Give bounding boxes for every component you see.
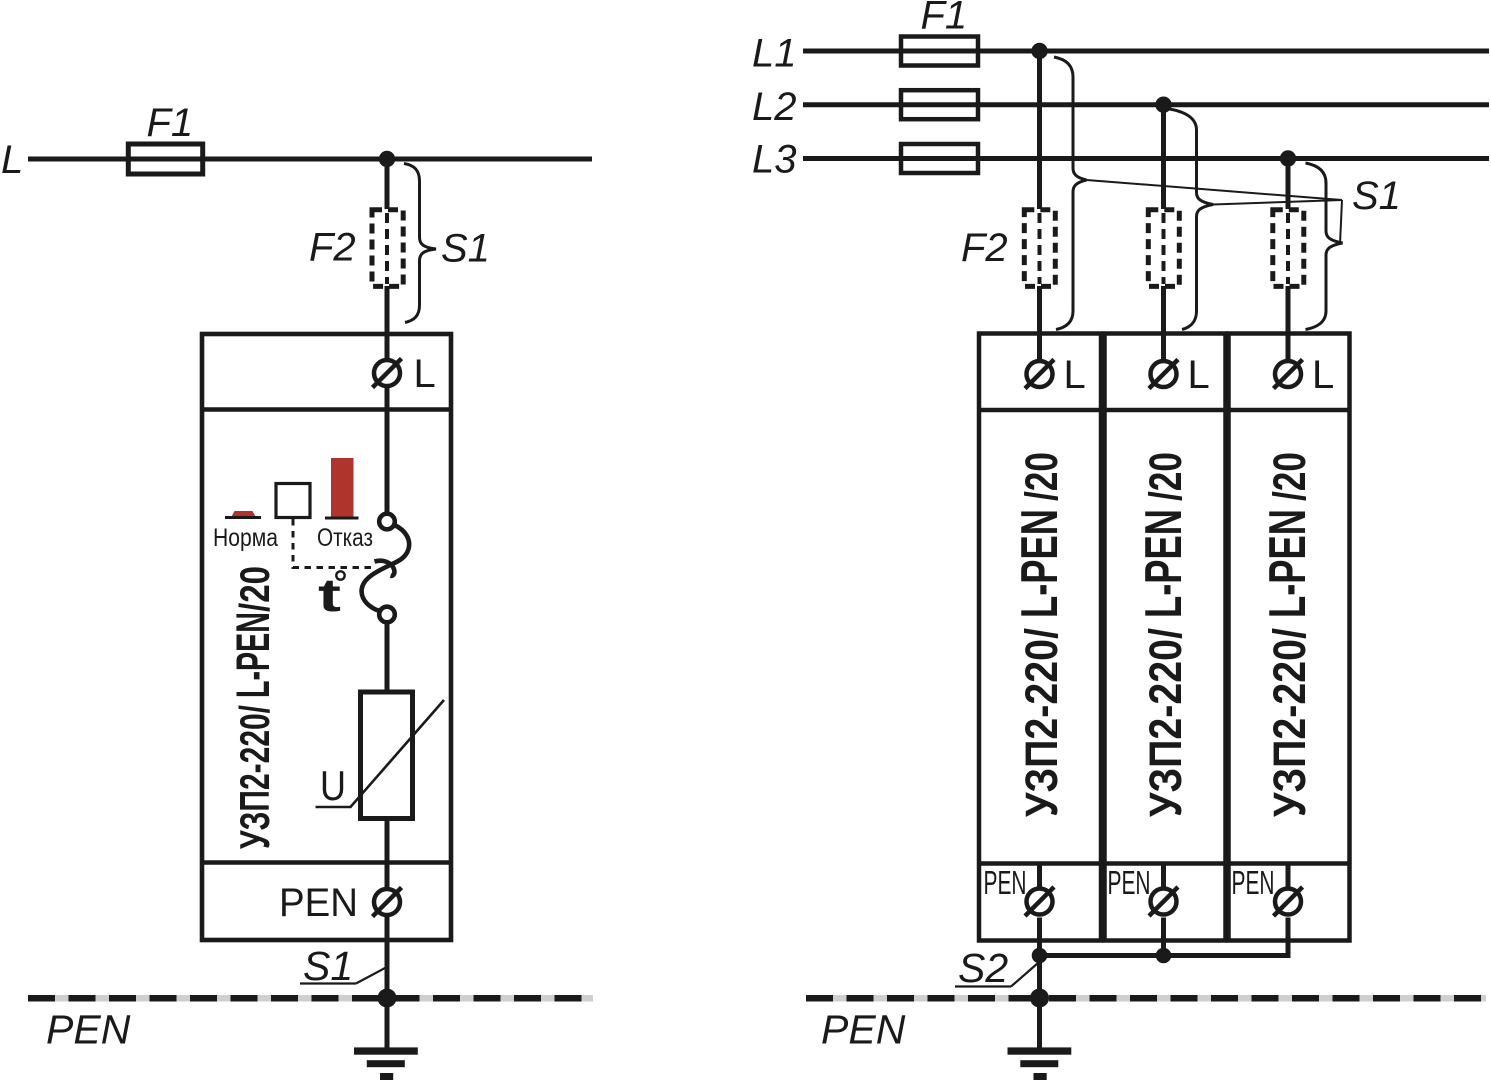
- PEN bus (left) gray underlay: [28, 995, 593, 1002]
- device model text (vertical): [226, 566, 279, 849]
- svg-text:УЗП2-220/: УЗП2-220/: [1264, 628, 1315, 817]
- svg-text:L-PEN: L-PEN: [1011, 509, 1069, 618]
- junction dot on L: [379, 151, 395, 167]
- svg-text:F2: F2: [961, 226, 1008, 270]
- model text box1 (vertical): [1011, 452, 1069, 817]
- svg-text:/20: /20: [1264, 452, 1315, 501]
- fuse F2c (dashed): [1273, 210, 1304, 287]
- svg-text:PEN: PEN: [279, 881, 358, 925]
- wire varistor to PEN terminal: [385, 819, 390, 903]
- fuse F2 (dashed): [372, 210, 403, 287]
- leader from brace2 to S1: [1213, 200, 1342, 205]
- svg-text:U: U: [320, 762, 346, 809]
- wire terminal to bus (box3): [1286, 864, 1291, 889]
- fuse F2b (dashed): [1148, 210, 1179, 287]
- svg-text:УЗП2-220/: УЗП2-220/: [1140, 628, 1191, 817]
- terminal L circle box3: [1275, 361, 1301, 387]
- terminal L circle: [374, 360, 400, 386]
- brace S1: [404, 164, 436, 323]
- wire terminal to PEN bus (box1): [1037, 864, 1042, 889]
- fuse on L2: [901, 90, 978, 119]
- indicator white square: [276, 484, 310, 518]
- svg-text:L: L: [1064, 353, 1086, 397]
- svg-text:Отказ: Отказ: [317, 524, 373, 552]
- brace 1: [1054, 57, 1087, 330]
- junction dot PEN bus: [378, 989, 397, 1008]
- svg-text:УЗП2-220/: УЗП2-220/: [231, 705, 278, 849]
- wire L3 drop: [1286, 159, 1291, 210]
- fuse F1: [128, 144, 202, 174]
- ground symbol right: [1008, 1047, 1072, 1054]
- svg-text:L-PEN: L-PEN: [226, 612, 279, 698]
- varistor diagonal: [316, 700, 445, 807]
- thermal switch bottom contact: [379, 607, 395, 623]
- PEN bus (right) dashes: [806, 995, 1486, 1002]
- terminal PEN circle box3: [1275, 889, 1301, 915]
- wire F2a to box: [1037, 286, 1042, 374]
- leader from brace1 to S1: [1087, 180, 1343, 200]
- svg-text:L3: L3: [752, 138, 797, 182]
- ground wire right: [1037, 998, 1042, 1048]
- svg-text:L-PEN: L-PEN: [1259, 509, 1317, 618]
- thermal switch curve: [362, 525, 410, 611]
- junction dot L1: [1031, 43, 1047, 59]
- box divider top: [202, 407, 451, 412]
- brace 3: [1306, 163, 1343, 330]
- svg-text:PEN: PEN: [46, 1007, 131, 1053]
- svg-text:L: L: [1188, 353, 1210, 397]
- junction dot PEN bus right: [1030, 989, 1049, 1008]
- device box 3: [1229, 334, 1350, 941]
- leader to brace3: [1340, 200, 1342, 244]
- wire L2 line: [803, 102, 1489, 107]
- wire junction to F2: [385, 159, 390, 209]
- svg-text:/20: /20: [1140, 452, 1191, 501]
- junction dot bus 2: [1156, 948, 1172, 964]
- fuse F1 on L1: [901, 37, 978, 66]
- device box U1: [202, 334, 451, 940]
- device box 2: [1105, 334, 1226, 941]
- thermal switch hook: [375, 561, 395, 576]
- svg-text:L: L: [414, 352, 436, 396]
- fuse F2a (dashed): [1024, 210, 1055, 287]
- svg-text:L2: L2: [752, 85, 797, 129]
- svg-text:S1: S1: [441, 227, 490, 271]
- wire terminal to switch: [385, 388, 390, 514]
- device box 1: [979, 334, 1101, 941]
- fuse on L3: [901, 144, 978, 173]
- svg-text:S2: S2: [958, 945, 1008, 991]
- svg-text:F1: F1: [921, 0, 968, 38]
- svg-text:L: L: [1312, 353, 1334, 397]
- svg-text:/20: /20: [231, 566, 278, 612]
- wire PEN terminal to PEN bus: [385, 917, 390, 998]
- ground wire: [385, 998, 390, 1048]
- wire L1 drop: [1037, 51, 1042, 209]
- varistor RU1 body: [361, 692, 413, 819]
- junction dot L2: [1155, 97, 1171, 113]
- wire L line: [28, 157, 592, 162]
- svg-text:УЗП2-220/: УЗП2-220/: [1016, 628, 1067, 817]
- svg-text:F1: F1: [147, 101, 194, 145]
- svg-text:L1: L1: [752, 32, 797, 76]
- svg-text:PEN: PEN: [821, 1007, 906, 1053]
- wire F2c to box: [1286, 286, 1291, 374]
- svg-text:L: L: [1, 138, 23, 182]
- svg-text:PEN: PEN: [1232, 864, 1275, 901]
- wire F2b to box: [1161, 286, 1166, 374]
- PEN collector bus: [1040, 953, 1291, 958]
- leader S2: [1011, 963, 1038, 987]
- indicator tall red bar (Отказ): [331, 458, 354, 518]
- svg-text:S1: S1: [1352, 174, 1401, 218]
- dashed indicator link: [293, 519, 372, 568]
- model text box2 (vertical): [1135, 452, 1193, 817]
- junction dot L3: [1280, 150, 1296, 166]
- wire L3 line: [803, 156, 1489, 161]
- terminal PEN circle box2: [1151, 889, 1177, 915]
- wire L2 drop: [1161, 105, 1166, 209]
- svg-text:S1: S1: [303, 943, 353, 989]
- junction dot bus 1: [1032, 948, 1048, 964]
- thermal switch top contact: [379, 514, 395, 530]
- terminal L circle box1: [1027, 361, 1053, 387]
- wire L1 line: [803, 49, 1489, 54]
- svg-text:F2: F2: [309, 226, 356, 270]
- PEN bus (right) gray underlay: [806, 995, 1486, 1002]
- wire switch to varistor: [385, 622, 390, 692]
- svg-text:PEN: PEN: [1108, 864, 1151, 901]
- box divider bottom: [202, 860, 451, 865]
- indicator small red bar (Норма): [231, 511, 256, 518]
- brace 2: [1162, 108, 1214, 330]
- svg-text:L-PEN: L-PEN: [1135, 509, 1193, 618]
- PEN bus (left) dashes: [28, 995, 593, 1002]
- wire inside F2 dashed: [385, 213, 389, 284]
- terminal L circle box2: [1151, 361, 1177, 387]
- leader S1: [356, 968, 385, 984]
- wire terminal to bus (box2): [1161, 864, 1166, 889]
- svg-text:Норма: Норма: [213, 524, 278, 552]
- model text box3 (vertical): [1259, 452, 1317, 817]
- svg-text:PEN: PEN: [984, 864, 1027, 901]
- terminal PEN circle: [374, 889, 400, 915]
- terminal PEN circle box1: [1027, 889, 1053, 915]
- ground symbol: [354, 1047, 418, 1054]
- wire F2 to box: [385, 286, 390, 372]
- svg-text:/20: /20: [1016, 452, 1067, 501]
